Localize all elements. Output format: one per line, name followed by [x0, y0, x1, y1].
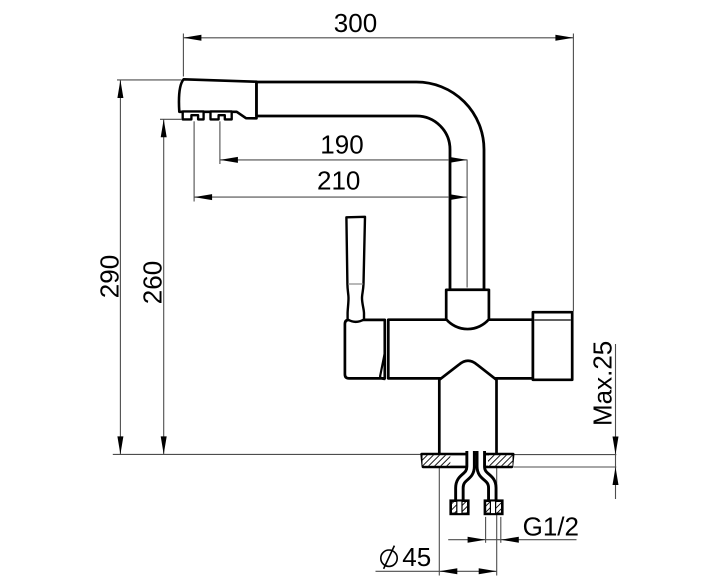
svg-text:Max.25: Max.25 — [588, 341, 618, 426]
ext line 260 top — [160, 118, 182, 120]
arrow 190 left — [220, 157, 238, 163]
ext line dia45 left — [438, 468, 440, 576]
aerator tab 2 — [211, 111, 232, 119]
dim line 290 — [119, 80, 121, 454]
hoses — [459, 450, 492, 502]
arrow 290 top — [117, 80, 123, 98]
dim line Max.25 — [615, 344, 617, 499]
ext line dia45 right — [496, 468, 498, 576]
arrow Max25 upper (down) — [613, 437, 619, 455]
body main cylinder — [388, 320, 533, 379]
hose connector left — [451, 501, 469, 514]
arrow dia45 right — [479, 568, 497, 574]
lever joint line — [348, 283, 363, 285]
svg-text:210: 210 — [317, 166, 360, 196]
pipe-to-body cup joint — [446, 290, 489, 329]
arrow 210 right — [449, 194, 467, 200]
ext line 300 right — [572, 34, 574, 312]
svg-text:45: 45 — [402, 542, 431, 572]
dim line 190 — [220, 159, 467, 161]
plate hatch right — [488, 455, 513, 465]
spout pipe (horizontal + bend + vertical) — [257, 82, 485, 290]
plate hatch left — [423, 455, 451, 465]
svg-text:G1/2: G1/2 — [523, 511, 579, 541]
ext line G1/2 right — [500, 517, 502, 543]
base plate — [422, 454, 514, 467]
diameter symbol — [381, 546, 397, 569]
countertop ext line right (Max.25 top) — [514, 454, 617, 456]
left hose outer — [459, 451, 470, 502]
svg-text:260: 260 — [138, 261, 168, 304]
arrow dia45 left — [439, 568, 457, 574]
arrow G12 right (points left) — [501, 537, 519, 543]
ext line 290 top — [117, 79, 182, 81]
arrow 210 left — [194, 194, 212, 200]
right end cap — [533, 312, 572, 380]
right cap inner line — [534, 319, 571, 321]
countertop line left — [113, 453, 422, 455]
arrow 260 bottom — [161, 436, 167, 454]
right hose outer — [481, 451, 493, 502]
ext line pipe centerline — [466, 160, 468, 288]
hose connector right — [485, 501, 502, 514]
ext line 300 left — [182, 34, 184, 77]
aerator tab 1 — [183, 111, 204, 119]
arrow 300 right — [555, 35, 573, 41]
arrow 260 top — [161, 119, 167, 137]
svg-text:190: 190 — [320, 130, 363, 160]
dim line 210 — [194, 196, 467, 198]
bottom neck (tent) + shank — [439, 361, 496, 455]
left end cap — [345, 320, 385, 379]
arrow G12 left (points right) — [468, 537, 486, 543]
left hose bore — [459, 450, 470, 502]
arrow 290 bottom — [117, 436, 123, 454]
svg-text:300: 300 — [334, 8, 377, 38]
arrow 190 right — [449, 157, 467, 163]
left cap slant line — [380, 353, 385, 379]
arrows — [117, 35, 618, 575]
ext line 190 left — [219, 121, 221, 164]
ext line 210 left — [193, 121, 195, 201]
dim line G1/2 — [448, 539, 576, 541]
dim line 260 — [163, 119, 165, 454]
arrow 300 left — [183, 35, 201, 41]
svg-text:290: 290 — [95, 255, 125, 298]
lever handle — [346, 217, 365, 322]
right hose bore — [481, 450, 493, 502]
Max.25 bottom ext line — [514, 466, 617, 468]
arrow Max25 lower (up) — [613, 467, 619, 485]
dim line 300 — [183, 37, 573, 39]
spout head — [179, 79, 257, 118]
dim line dia45 — [376, 570, 497, 572]
ext line G1/2 left — [485, 517, 487, 543]
